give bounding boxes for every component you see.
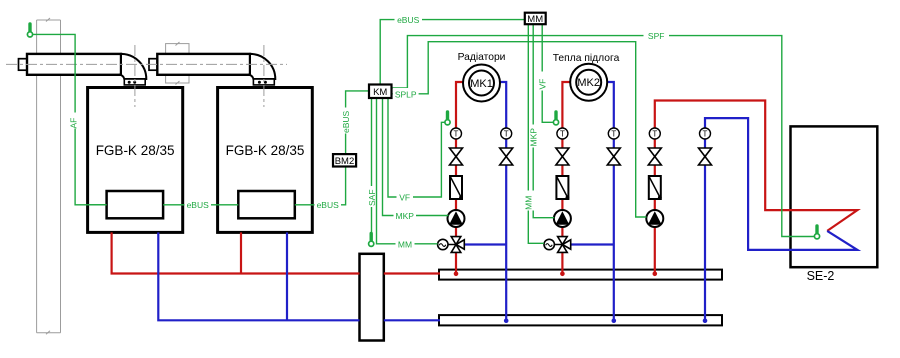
svg-text:SAF: SAF: [367, 189, 377, 206]
junction dot return circuit2: [612, 318, 617, 323]
junction dot return circuit1: [504, 318, 509, 323]
svg-text:eBUS: eBUS: [341, 110, 351, 133]
shutoff valve circuit1 return: [500, 148, 513, 165]
outdoor sensor AF wire: [33, 34, 107, 204]
flue centerline vertical boiler1: [134, 45, 136, 107]
gravity brake circuit2: [556, 176, 569, 199]
svg-text:KM: KM: [373, 87, 387, 98]
module KM: [369, 85, 392, 99]
supply manifold bar: [439, 270, 722, 280]
gravity brake circuit1: [450, 176, 463, 199]
VF wire circuit2: [542, 24, 553, 122]
svg-text:MM: MM: [398, 239, 412, 249]
eBUS wire boiler2 to BM2: [295, 167, 346, 205]
SPF wire KM to tank sensor: [392, 36, 815, 237]
svg-text:FGB-K 28/35: FGB-K 28/35: [226, 143, 305, 158]
MKP wire circuit1: [383, 98, 449, 216]
flue pipe 1 flange bolts: [128, 81, 131, 84]
flow sensor VF2 thermometer: [553, 112, 558, 125]
label eBUS boiler2: [315, 199, 342, 211]
chimney shaft: [37, 18, 61, 334]
boiler 2 FGB-K 28/35: [218, 88, 313, 233]
eBUS wire BM2 to KM: [346, 91, 369, 154]
circuit 1 return pipe: [500, 82, 506, 319]
radiators mixing circle MK1: [463, 65, 500, 102]
boiler 2 return pipe: [286, 232, 288, 320]
boiler 1 FGB-K 28/35: [88, 88, 183, 233]
wall pass-through box (pipe 2): [166, 42, 189, 85]
green wire into boiler1 control box (eBUS out): [88, 204, 107, 206]
svg-text:MKP: MKP: [529, 128, 539, 147]
flue pipe 1: [19, 54, 147, 85]
label eBUS boiler1: [185, 199, 212, 211]
mixer actuator M1: [438, 239, 448, 249]
thermometer T circuit2 supply: [557, 128, 568, 139]
label MM circuit1: [396, 238, 415, 250]
pump P2 circuit2: [554, 210, 571, 227]
gravity brake DHW: [649, 176, 662, 199]
svg-text:BM2: BM2: [335, 156, 355, 167]
separator sensor SAF thermometer: [369, 234, 374, 247]
tank sensor SPF thermometer: [814, 226, 819, 239]
shutoff valve circuit2 return: [607, 148, 620, 165]
pump P1 circuit1: [448, 210, 465, 227]
module MM: [525, 13, 546, 25]
svg-text:MM: MM: [527, 14, 543, 25]
svg-text:MM: MM: [524, 196, 534, 210]
svg-text:AF: AF: [69, 118, 79, 129]
svg-text:SE-2: SE-2: [807, 269, 835, 283]
label MM circuit2 vertical: [523, 191, 535, 211]
outdoor sensor AF thermometer: [27, 24, 32, 37]
svg-text:SPLP: SPLP: [395, 89, 417, 99]
svg-text:T: T: [504, 130, 509, 139]
module BM2: [333, 154, 356, 167]
circuit 1 supply pipe: [456, 82, 463, 272]
flue pipe 2: [149, 54, 275, 85]
svg-text:T: T: [652, 130, 657, 139]
boiler 2 supply pipe: [240, 232, 242, 273]
label MKP circuit1: [394, 210, 417, 222]
label MKP circuit2 vertical: [528, 125, 540, 148]
boiler 1 control box: [107, 191, 164, 218]
svg-text:MK2: MK2: [577, 77, 600, 89]
thermometer T DHW return: [700, 128, 711, 139]
mixer actuator M2: [544, 239, 554, 249]
svg-text:T: T: [703, 130, 708, 139]
svg-text:Тепла підлога: Тепла підлога: [553, 53, 620, 64]
svg-text:Радіатори: Радіатори: [458, 52, 506, 63]
flue centerline horizontal: [6, 63, 287, 65]
pump P3 DHW loading: [646, 210, 663, 227]
MKP wire circuit2: [533, 24, 554, 218]
eBUS wire KM to MM: [380, 20, 525, 85]
boiler 1 supply pipe: [112, 232, 360, 273]
label SPLP: [393, 88, 419, 100]
shutoff valve circuit1 supply: [450, 148, 463, 165]
thermometer T circuit1 supply: [451, 128, 462, 139]
3-way mixer circuit2: [558, 237, 571, 253]
svg-text:SPF: SPF: [648, 31, 665, 41]
svg-text:MKP: MKP: [395, 211, 414, 221]
svg-text:T: T: [611, 130, 616, 139]
circuit 2 mixer bypass pipe: [571, 243, 614, 245]
svg-text:VF: VF: [538, 79, 548, 90]
circuit 2 supply pipe: [562, 82, 570, 272]
flow sensor VF1 thermometer: [445, 112, 450, 125]
DHW circuit return pipe from tank coil: [705, 118, 857, 319]
junction dot supply DHW: [653, 272, 658, 277]
label VF circuit2 vertical: [537, 72, 549, 91]
flue pipe 2 flange bolts: [258, 81, 261, 84]
shutoff valve circuit2 supply: [556, 148, 569, 165]
floor heating mixing circle MK2: [570, 64, 607, 101]
separator to return bar pipe: [384, 319, 440, 321]
label VF circuit1: [397, 191, 414, 203]
svg-text:FGB-K 28/35: FGB-K 28/35: [96, 143, 175, 158]
eBUS wire boiler1 to boiler2: [163, 204, 238, 206]
label SAF vertical: [366, 186, 378, 207]
boiler 2 control box: [238, 191, 294, 218]
hydraulic separator: [360, 254, 384, 341]
flue centerline vertical boiler2: [263, 45, 265, 107]
circuit 2 return pipe: [607, 82, 614, 319]
label eBUS top: [395, 14, 423, 26]
shutoff valve DHW supply: [648, 148, 661, 165]
svg-text:T: T: [560, 130, 565, 139]
boiler 1 return pipe: [158, 232, 359, 320]
SPLP wire KM to DHW pump: [392, 42, 647, 217]
label SPF: [644, 30, 670, 42]
separator to supply bar pipe: [384, 272, 440, 274]
thermometer T circuit2 return: [608, 128, 619, 139]
junction dot supply circuit2: [560, 272, 565, 277]
thermometer T DHW supply: [649, 128, 660, 139]
svg-text:T: T: [454, 130, 459, 139]
svg-text:MK1: MK1: [470, 78, 493, 90]
3-way mixer circuit1: [451, 237, 464, 253]
SAF wire KM to separator sensor: [371, 98, 373, 233]
circuit 1 mixer bypass pipe: [465, 243, 507, 245]
storage tank SE-2: [791, 126, 878, 267]
label AF: [69, 113, 81, 129]
MM wire circuit1: [377, 98, 438, 244]
svg-text:eBUS: eBUS: [187, 200, 210, 210]
svg-text:eBUS: eBUS: [397, 15, 420, 25]
svg-text:eBUS: eBUS: [317, 200, 340, 210]
label eBUS vertical: [340, 108, 352, 134]
DHW circuit supply pipe to tank coil: [655, 101, 858, 273]
MM wire circuit2: [528, 24, 544, 243]
shutoff valve DHW return: [699, 148, 712, 165]
thermometer T circuit1 return: [501, 128, 512, 139]
svg-text:VF: VF: [399, 193, 410, 203]
return manifold bar: [439, 315, 722, 325]
junction dot supply circuit1: [454, 272, 459, 277]
VF wire circuit1: [388, 98, 445, 197]
junction dot return DHW: [703, 318, 708, 323]
